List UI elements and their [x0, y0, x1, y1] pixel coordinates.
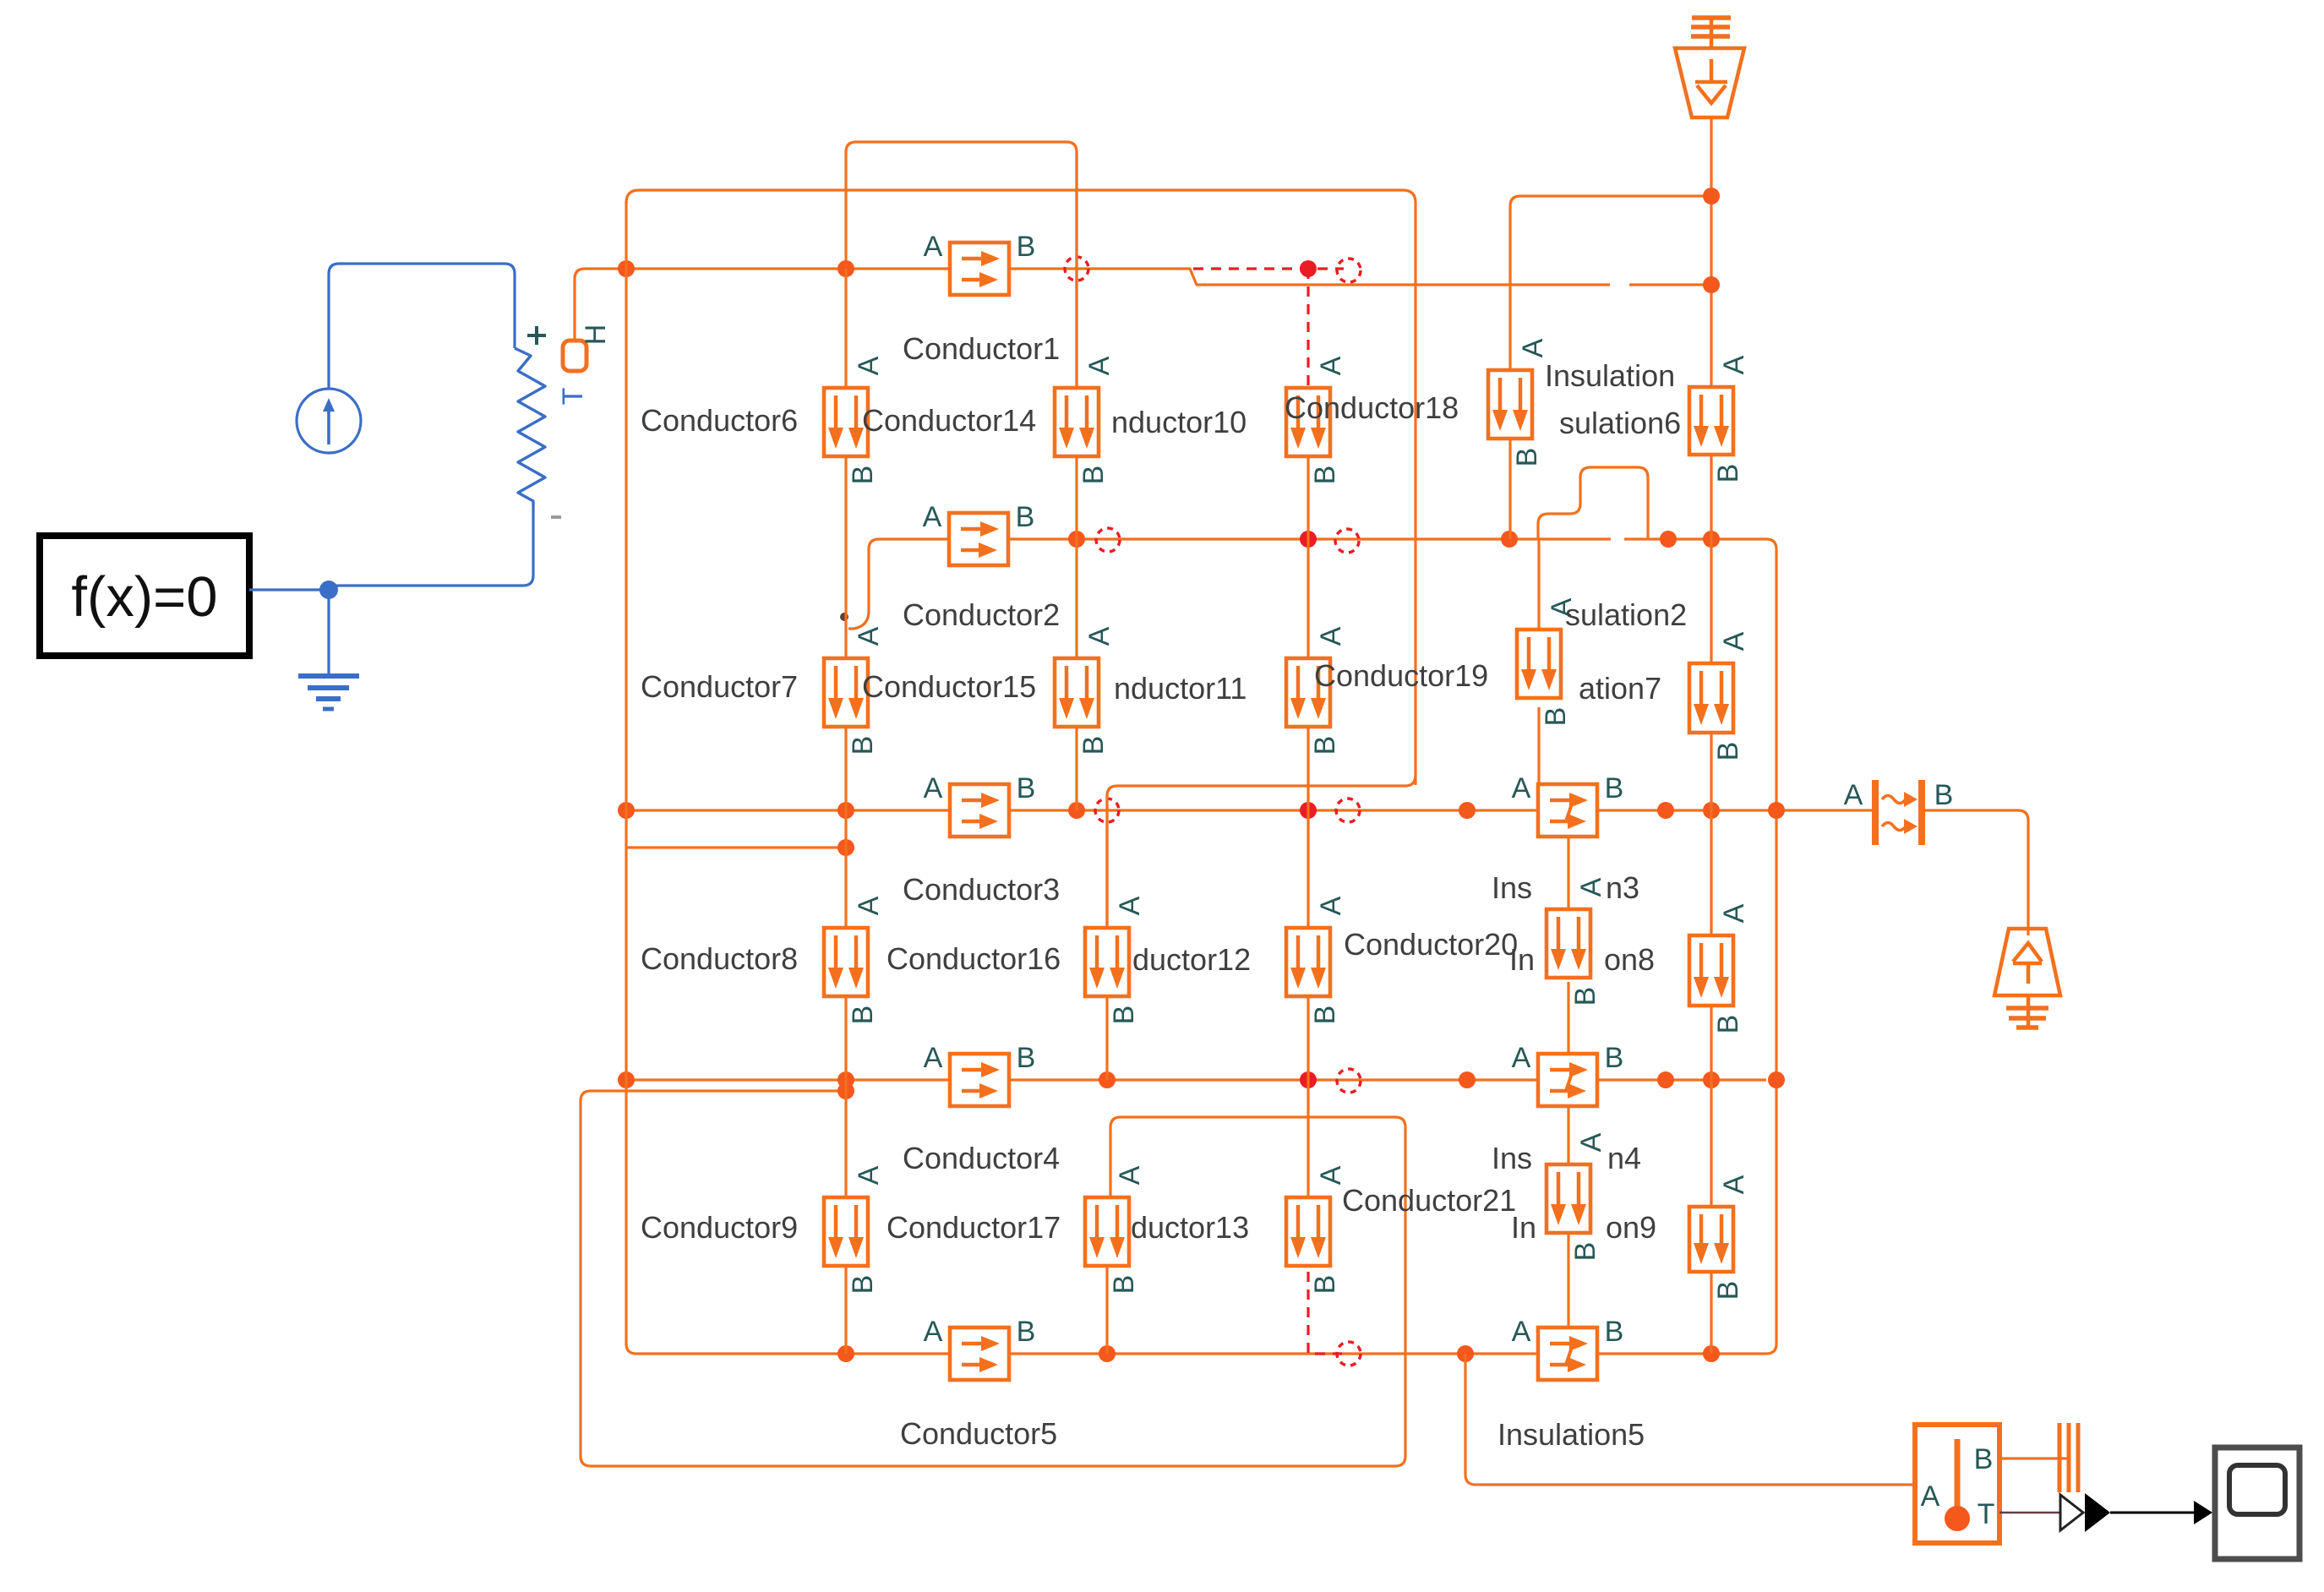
svg-text:B: B	[1540, 707, 1572, 727]
svg-text:n4: n4	[1607, 1141, 1641, 1175]
svg-text:B: B	[1569, 987, 1601, 1006]
svg-text:B: B	[1016, 501, 1035, 533]
svg-text:A: A	[853, 1165, 885, 1185]
convective block (A-wavy-B)	[1875, 780, 1922, 845]
wire sensor B to reference bars	[1999, 1457, 2069, 1459]
svg-text:A: A	[1512, 1316, 1531, 1348]
svg-text:B: B	[1605, 1316, 1624, 1348]
svg-text:A: A	[1844, 779, 1863, 811]
svg-text:B: B	[1569, 1242, 1601, 1262]
conductor block Insulation6b (vertical, two down arrows)	[1689, 663, 1733, 733]
svg-text:A: A	[853, 626, 885, 646]
svg-text:A: A	[1718, 631, 1750, 651]
svg-text:Conductor20: Conductor20	[1344, 927, 1518, 962]
svg-text:Conductor16: Conductor16	[887, 941, 1061, 976]
svg-text:A: A	[1083, 626, 1116, 646]
svg-text:B: B	[1017, 772, 1036, 804]
conductor block Insulation6c (vertical, two down arrows)	[1689, 935, 1733, 1006]
junction dots on bus D	[618, 802, 635, 819]
wire current source top loop	[329, 264, 515, 389]
svg-text:B: B	[1712, 742, 1744, 761]
svg-text:B: B	[1309, 736, 1341, 755]
svg-text:f(x)=0: f(x)=0	[71, 565, 217, 629]
svg-text:B: B	[1511, 448, 1543, 467]
scope block	[2215, 1448, 2299, 1559]
wire bus B right segment after gap	[1629, 283, 1711, 286]
svg-text:In: In	[1509, 942, 1535, 977]
svg-text:B: B	[1077, 466, 1110, 485]
conductor block Insulation6a (vertical, two down arrows)	[1689, 387, 1733, 455]
red unconnected circle on bus C right of Conductor19 column	[1335, 529, 1359, 553]
wire bus B left segment	[626, 267, 952, 270]
plus label of R1	[527, 326, 546, 345]
wire bus B from block to jog	[1007, 267, 1183, 270]
triple bar icon (commented connection)	[2059, 1423, 2078, 1492]
conductor block Conductor11 (vertical, two down arrows)	[1055, 658, 1099, 727]
f(x)=0 solver block	[40, 536, 249, 656]
svg-text:on9: on9	[1606, 1210, 1656, 1245]
conductor block Conductor2 (horizontal, two right arrows)	[949, 513, 1008, 565]
conductor block Conductor14 (vertical, two down arrows)	[824, 388, 868, 456]
svg-text:A: A	[923, 501, 942, 533]
wire bus F	[626, 1344, 952, 1354]
conductor block Insulation8 (vertical, two down arrows)	[1547, 909, 1590, 978]
conductor block Conductor21 (vertical, two down arrows)	[1286, 1197, 1330, 1266]
svg-text:Conductor6: Conductor6	[641, 403, 798, 438]
junction dot bus C at staircase column	[1660, 531, 1677, 548]
tiny mark near Conductor15 A	[840, 613, 848, 621]
svg-text:on8: on8	[1604, 942, 1655, 977]
wire from solver to node N1	[249, 588, 329, 591]
svg-text:A: A	[924, 772, 943, 804]
svg-text:A: A	[924, 1316, 943, 1348]
svg-text:B: B	[1974, 1443, 1994, 1475]
svg-text:A: A	[1575, 1132, 1607, 1152]
wire bus C corner down into right column c7	[1766, 539, 1776, 1344]
wire c5 column (Insulation)	[1520, 194, 1711, 197]
conductor block Insulation (vertical, two down arrows)	[1488, 370, 1532, 439]
svg-text:A: A	[1718, 355, 1750, 374]
wire bus E	[626, 1078, 952, 1081]
red dashed wire down to Conductor18 A	[1307, 269, 1309, 386]
node N1 junction	[319, 581, 338, 599]
svg-text:A: A	[1114, 896, 1146, 915]
conductor block Conductor5 (horizontal, two right arrows)	[950, 1328, 1009, 1380]
svg-text:B: B	[1108, 1275, 1140, 1295]
junction dot bus C at right insulation column	[1703, 531, 1720, 548]
conductor block Conductor13 (vertical, two down arrows)	[1085, 1197, 1129, 1266]
svg-text:Insulation5: Insulation5	[1498, 1417, 1645, 1452]
svg-text:B: B	[1108, 1006, 1140, 1025]
temperature sensor block	[1915, 1425, 1999, 1543]
thermal port H of resistor (orange square)	[563, 341, 586, 371]
svg-text:B: B	[1309, 1006, 1341, 1025]
conductor block Conductor10 (vertical, two down arrows)	[1055, 388, 1099, 456]
wire c5b column (Insulation2/Insulation7)	[1537, 539, 1540, 630]
conductor block Conductor15 (vertical, two down arrows)	[824, 658, 868, 727]
svg-text:Ins: Ins	[1492, 1141, 1532, 1175]
wire bus C left hook to Conductor15 A	[848, 539, 950, 629]
svg-text:B: B	[847, 466, 879, 485]
red unconnected circle on bus C right of Conductor10 column	[1096, 528, 1120, 552]
svg-text:Conductor9: Conductor9	[641, 1210, 798, 1245]
insulation block Insulation5s (horizontal, two right arrows, slashed)	[1538, 1328, 1597, 1380]
insulation block Insulation4 (horizontal, two right arrows, slashed)	[1538, 1054, 1597, 1106]
svg-text:A: A	[853, 896, 885, 915]
svg-text:In: In	[1511, 1210, 1536, 1245]
svg-text:B: B	[1605, 1042, 1624, 1074]
red unconnected circle on bus E right of Conductor21 column	[1337, 1069, 1361, 1093]
wire c3 lower column (Conductor12)	[1105, 796, 1108, 1080]
svg-text:B: B	[1309, 466, 1341, 485]
wire sensor T to converter	[1999, 1512, 2060, 1514]
wire c3 column upper (Conductor10-11)	[1075, 152, 1077, 810]
svg-text:Conductor8: Conductor8	[641, 941, 798, 976]
wire bus C center segment	[1007, 537, 1509, 540]
svg-text:Insulation: Insulation	[1545, 358, 1675, 393]
svg-text:B: B	[847, 736, 879, 755]
parallel wire below bus D	[626, 846, 846, 848]
svg-text:A: A	[1315, 626, 1347, 646]
red unconnected circle at Conductor10 crossing on bus B	[1065, 257, 1088, 281]
svg-text:A: A	[1512, 1042, 1531, 1074]
insulation block Insulation3 (horizontal, two right arrows, slashed)	[1538, 784, 1597, 837]
svg-text:A: A	[1114, 1165, 1146, 1185]
svg-text:A: A	[1575, 877, 1607, 897]
conductor block Conductor20 (vertical, two down arrows)	[1286, 928, 1330, 996]
arrowhead into scope	[2194, 1501, 2212, 1524]
conductor block Insulation9 (vertical, two down arrows)	[1547, 1164, 1590, 1233]
svg-text:ductor12: ductor12	[1132, 942, 1251, 977]
conductor block Insulation6d (vertical, two down arrows)	[1689, 1207, 1733, 1272]
svg-text:nductor11: nductor11	[1114, 671, 1247, 706]
svg-text:Conductor3: Conductor3	[903, 872, 1060, 907]
svg-text:Conductor7: Conductor7	[641, 669, 798, 704]
svg-text:A: A	[924, 231, 943, 263]
svg-text:A: A	[924, 1042, 943, 1074]
svg-text:A: A	[1315, 1165, 1347, 1185]
electrical reference ground	[298, 676, 359, 709]
conductor block Conductor3 (horizontal, two right arrows)	[950, 784, 1009, 837]
svg-text:T: T	[1978, 1498, 1995, 1530]
conductor block Conductor16 (vertical, two down arrows)	[824, 928, 868, 996]
svg-text:Conductor18: Conductor18	[1285, 390, 1459, 425]
red junction dot bus C at Conductor19 column	[1300, 531, 1317, 548]
wire c2 column (Conductor14-17)	[844, 269, 847, 1354]
svg-text:Conductor21: Conductor21	[1342, 1183, 1516, 1218]
wire loop over Conductor1 from bus B to Conductor10	[846, 142, 1077, 388]
svg-text:A: A	[1512, 772, 1531, 804]
svg-text:H: H	[580, 324, 612, 346]
conductor block Conductor17 (vertical, two down arrows)	[824, 1197, 868, 1266]
wire bus C right of insulation column	[1509, 537, 1611, 540]
svg-text:Ins: Ins	[1492, 870, 1532, 905]
svg-text:A: A	[1315, 356, 1347, 375]
svg-text:Conductor2: Conductor2	[903, 597, 1060, 632]
svg-text:nductor10: nductor10	[1111, 405, 1247, 439]
svg-text:Conductor14: Conductor14	[862, 403, 1036, 438]
conductor block Conductor12 (vertical, two down arrows)	[1085, 928, 1129, 996]
svg-text:B: B	[1934, 779, 1954, 811]
svg-text:ductor13: ductor13	[1131, 1210, 1249, 1245]
wire bus B jog down	[1181, 269, 1207, 285]
svg-text:B: B	[1712, 1281, 1744, 1300]
svg-text:A: A	[1921, 1480, 1940, 1513]
svg-text:Conductor19: Conductor19	[1314, 658, 1488, 693]
junction dots on bus F	[837, 1345, 854, 1362]
junction dot bus B at left column	[618, 260, 635, 277]
wire H port to thermal bus B	[575, 269, 626, 341]
solid arrow after converter	[2085, 1493, 2110, 1532]
wire node N1 to electrical reference	[327, 590, 330, 673]
svg-text:B: B	[1712, 1015, 1744, 1034]
conductor block Conductor1 (horizontal, two right arrows)	[950, 243, 1009, 295]
svg-text:T: T	[557, 388, 589, 406]
svg-text:Conductor15: Conductor15	[862, 669, 1036, 704]
wire resistor bottom to node N1	[329, 507, 533, 590]
wire bus A (top)	[626, 190, 1416, 785]
svg-text:B: B	[847, 1275, 879, 1295]
red unconnected circle on bus F	[1337, 1342, 1361, 1366]
junction dots on c6 column	[1703, 188, 1720, 204]
svg-text:B: B	[1017, 1042, 1036, 1074]
wire c5c column (Insulation3/8 and 4/9)	[1567, 837, 1569, 909]
wire Conductor13 B to bus F	[1105, 1266, 1108, 1354]
signal wire to scope	[2110, 1512, 2194, 1514]
svg-text:B: B	[1712, 464, 1744, 483]
wire from bus F down to temperature sensor	[1465, 1354, 1915, 1485]
svg-text:Conductor5: Conductor5	[900, 1416, 1057, 1451]
bus F right corner up to c7	[1766, 1344, 1776, 1354]
svg-text:B: B	[1605, 772, 1624, 804]
red junction dot bus D at Conductor20 column	[1300, 802, 1317, 819]
svg-text:B: B	[1077, 736, 1110, 755]
svg-text:A: A	[1718, 1175, 1750, 1194]
junction dot bus B at Conductor14 column	[837, 260, 854, 277]
svg-text:Conductor17: Conductor17	[887, 1210, 1061, 1245]
red junction dot bus E at Conductor21 column	[1300, 1071, 1317, 1088]
wire c1 left column	[625, 201, 627, 1345]
svg-text:ation7: ation7	[1579, 671, 1661, 706]
wire c6 right column	[1710, 118, 1712, 387]
svg-text:A: A	[853, 356, 885, 375]
svg-text:Conductor1: Conductor1	[903, 331, 1060, 366]
conductor block Conductor4 (horizontal, two right arrows)	[950, 1054, 1009, 1106]
red dashed wire on bus B	[1193, 267, 1344, 270]
red dashed wire Conductor21 B to bus F	[1308, 1272, 1342, 1354]
current source I1 (circle with up arrow)	[297, 389, 361, 453]
parallel wire below bus E to bypass	[581, 1091, 1405, 1466]
svg-text:B: B	[1017, 231, 1036, 263]
red unconnected circle at Conductor12 crossing on bus D	[1095, 799, 1119, 822]
thermal reference 2 (trapezoid with up arrow)	[1994, 929, 2060, 1029]
junction dot bus C at Conductor10 column	[1068, 531, 1085, 548]
svg-text:A: A	[1315, 896, 1347, 915]
junction dots on bus E	[618, 1071, 635, 1088]
svg-text:B: B	[847, 1006, 879, 1025]
conductor block Conductor18 (vertical, two down arrows)	[1286, 388, 1330, 456]
thermal reference (top, trapezoid with down arrow)	[1675, 18, 1744, 117]
wire convective block to thermal reference 2	[1924, 810, 2028, 935]
resistor R1 (zigzag)	[515, 348, 545, 507]
svg-text:A: A	[1083, 356, 1116, 375]
wire bus C right segment after gap	[1624, 537, 1766, 540]
svg-text:Conductor4: Conductor4	[903, 1141, 1060, 1175]
svg-text:A: A	[1718, 903, 1750, 923]
red unconnected circle on bus D right of Conductor20 column	[1336, 799, 1360, 822]
svg-text:sulation2: sulation2	[1565, 597, 1687, 632]
red unconnected circle right of Conductor18 column on bus B	[1337, 259, 1361, 282]
svg-text:sulation6: sulation6	[1559, 406, 1681, 440]
wire c4 column (Conductor18-21)	[1307, 455, 1309, 540]
conductor block Conductor19 (vertical, two down arrows)	[1286, 658, 1330, 727]
svg-text:B: B	[1017, 1316, 1036, 1348]
junction dot bus C at insulation column	[1501, 531, 1518, 548]
PS-Simulink converter (hollow triangle)	[2060, 1495, 2083, 1530]
wire from bus A down-left to Conductor12 branch	[1107, 775, 1416, 928]
wire bus B right segment	[1203, 283, 1610, 286]
conductor block Insulation7 (vertical, two down arrows)	[1517, 630, 1561, 698]
svg-text:A: A	[1517, 338, 1549, 357]
staircase wire near Insulation2	[1538, 467, 1648, 539]
minus label of R1	[551, 515, 561, 519]
red junction dot bus B / Conductor18	[1300, 260, 1317, 277]
svg-text:B: B	[1309, 1275, 1341, 1295]
svg-text:n3: n3	[1606, 870, 1639, 905]
wire bus D	[626, 809, 952, 811]
